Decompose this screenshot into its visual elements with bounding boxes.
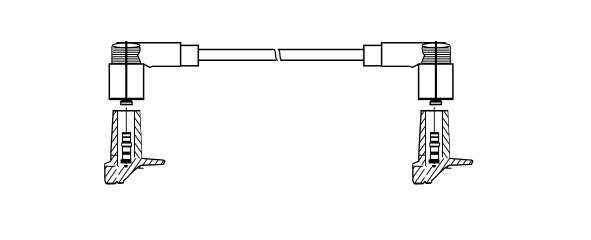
left connector boot (109, 41, 199, 105)
left tower (105, 107, 165, 184)
cable bottom line (198, 59, 276, 61)
right connector boot (mirrored) (364, 41, 454, 105)
cable top line (198, 49, 273, 51)
right tower (413, 107, 473, 184)
cable break mark (274, 49, 278, 61)
